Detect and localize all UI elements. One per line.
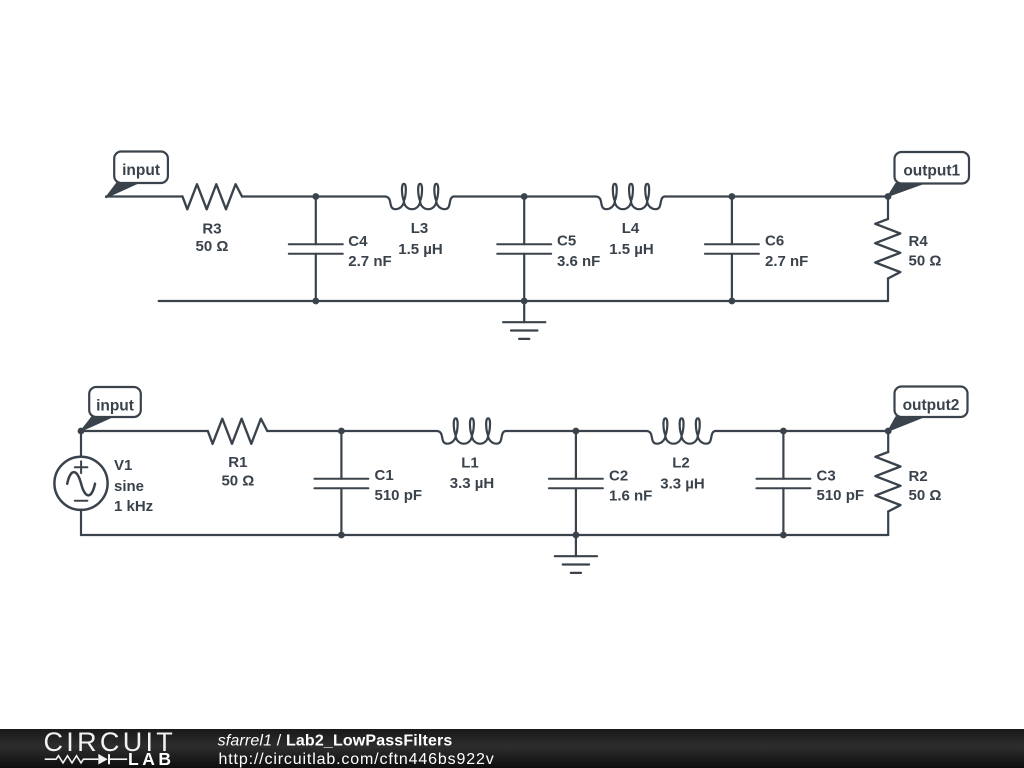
svg-text:output2: output2 — [903, 397, 960, 414]
svg-text:C3: C3 — [817, 467, 836, 484]
svg-text:L3: L3 — [411, 220, 429, 237]
svg-text:1 kHz: 1 kHz — [114, 498, 153, 515]
svg-text:510 pF: 510 pF — [375, 487, 423, 504]
svg-text:input: input — [96, 398, 134, 415]
svg-text:3.6 nF: 3.6 nF — [557, 253, 600, 270]
svg-text:http://circuitlab.com/cftn446b: http://circuitlab.com/cftn446bs922v — [219, 751, 495, 768]
svg-text:50 Ω: 50 Ω — [221, 472, 254, 489]
svg-text:1.5 µH: 1.5 µH — [609, 241, 654, 258]
svg-text:C6: C6 — [765, 232, 784, 249]
svg-text:2.7 nF: 2.7 nF — [765, 253, 808, 270]
svg-text:output1: output1 — [903, 163, 960, 180]
svg-text:R4: R4 — [909, 233, 929, 250]
svg-text:C2: C2 — [609, 467, 628, 484]
svg-text:1.6 nF: 1.6 nF — [609, 488, 652, 505]
svg-text:3.3 µH: 3.3 µH — [660, 475, 705, 492]
svg-text:1.5 µH: 1.5 µH — [398, 241, 443, 258]
svg-text:2.7 nF: 2.7 nF — [348, 253, 391, 270]
svg-text:50 Ω: 50 Ω — [196, 238, 229, 255]
svg-text:sine: sine — [114, 478, 144, 495]
svg-text:C5: C5 — [557, 232, 576, 249]
svg-text:C4: C4 — [348, 233, 368, 250]
svg-text:input: input — [122, 162, 160, 179]
svg-text:C1: C1 — [375, 467, 394, 484]
svg-text:V1: V1 — [114, 457, 132, 474]
svg-text:L1: L1 — [461, 454, 479, 471]
svg-text:L4: L4 — [622, 220, 640, 237]
svg-text:L2: L2 — [672, 454, 690, 471]
svg-text:R2: R2 — [909, 468, 928, 485]
svg-text:LAB: LAB — [128, 749, 174, 768]
svg-text:50 Ω: 50 Ω — [909, 252, 942, 269]
svg-text:50 Ω: 50 Ω — [909, 487, 942, 504]
svg-text:3.3 µH: 3.3 µH — [450, 475, 495, 492]
svg-text:R1: R1 — [228, 454, 247, 471]
svg-text:sfarrel1 / Lab2_LowPassFilters: sfarrel1 / Lab2_LowPassFilters — [218, 733, 453, 750]
svg-text:510 pF: 510 pF — [817, 487, 865, 504]
svg-text:R3: R3 — [202, 221, 221, 238]
